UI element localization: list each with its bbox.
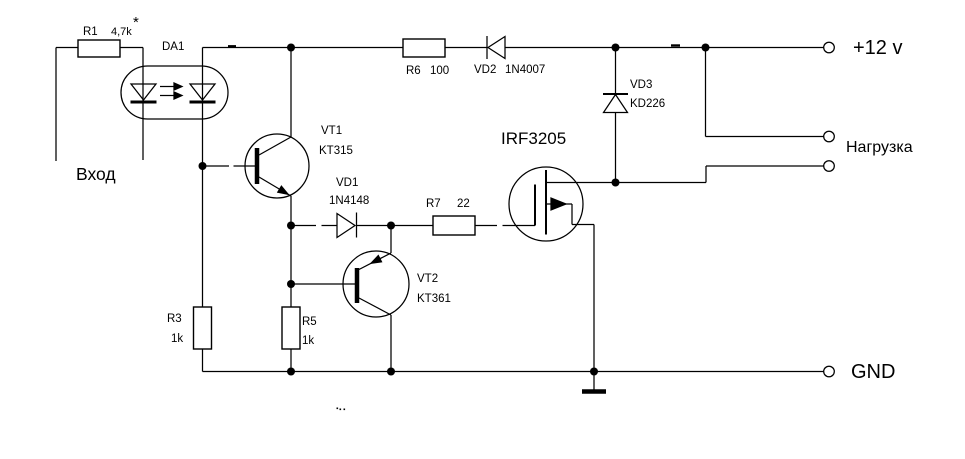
svg-text:100: 100: [430, 65, 449, 77]
svg-text:R7: R7: [426, 198, 441, 210]
svg-text:VD1: VD1: [336, 177, 358, 189]
svg-text:*: *: [133, 14, 139, 31]
svg-text:4,7k: 4,7k: [111, 26, 132, 38]
svg-text:R6: R6: [406, 65, 421, 77]
svg-text:GND: GND: [851, 361, 895, 383]
svg-text:KT315: KT315: [319, 145, 353, 157]
svg-text:+12 v: +12 v: [853, 37, 902, 59]
svg-text:1N4007: 1N4007: [505, 64, 545, 76]
svg-text:22: 22: [457, 198, 470, 210]
svg-text:VT2: VT2: [417, 273, 438, 285]
svg-text:R1: R1: [83, 26, 98, 38]
svg-text:Вход: Вход: [76, 164, 116, 184]
svg-text:KD226: KD226: [630, 98, 665, 110]
svg-text:R5: R5: [302, 316, 317, 328]
svg-text:DA1: DA1: [162, 41, 184, 53]
svg-text:IRF3205: IRF3205: [501, 129, 566, 148]
svg-text:1k: 1k: [302, 335, 314, 347]
svg-text:1k: 1k: [171, 333, 183, 345]
svg-text:Нагрузка: Нагрузка: [846, 139, 913, 156]
svg-text:VD3: VD3: [630, 79, 652, 91]
svg-text:VT1: VT1: [321, 125, 342, 137]
svg-text:R3: R3: [167, 313, 182, 325]
svg-text:KT361: KT361: [417, 293, 451, 305]
svg-text:VD2: VD2: [474, 64, 496, 76]
svg-text:1N4148: 1N4148: [329, 195, 369, 207]
